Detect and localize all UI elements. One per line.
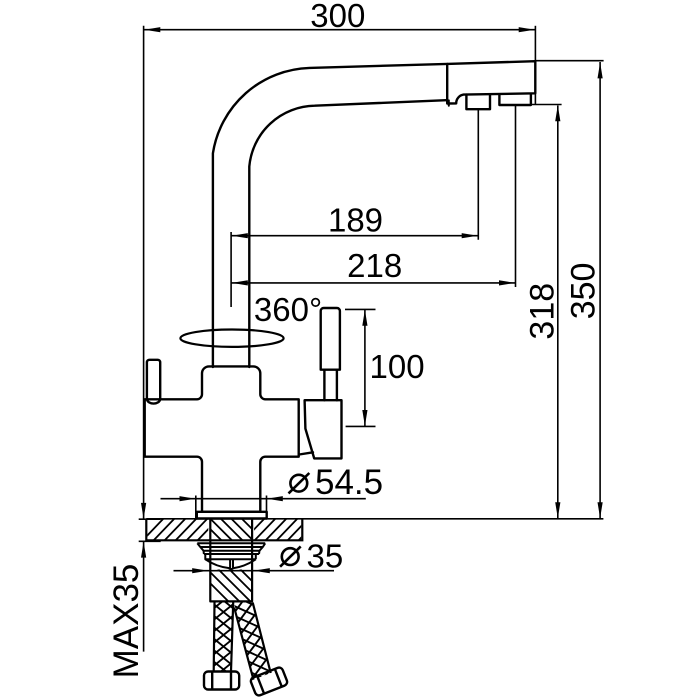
arrow 189 left: [232, 233, 248, 238]
diameter symbols drawn: [280, 473, 309, 567]
svg-text:100: 100: [370, 348, 425, 385]
hose left braid: [213, 592, 234, 678]
diameter symbol for 35: [282, 548, 299, 565]
arrow 350 top: [598, 62, 603, 78]
hose left outline: [214, 603, 234, 672]
ext line left long (300 / MAX35): [143, 26, 145, 652]
svg-text:35: 35: [307, 538, 344, 575]
arrow 318 bottom: [555, 502, 560, 518]
spray head housing: [447, 61, 535, 103]
shank hatch below nut: [196, 569, 273, 602]
side outlet gap line: [299, 452, 313, 454]
arrow dia35 right: [254, 568, 270, 573]
countertop top line (extends to dimension baseline): [146, 518, 603, 520]
arrow dia54 left: [180, 496, 196, 501]
spout pipe outer curve: [213, 64, 447, 367]
arrow 318 top: [555, 105, 560, 121]
arrow dia54 right: [267, 496, 283, 501]
arrow 100 top: [362, 310, 367, 326]
ticks MAX35: [139, 519, 161, 541]
arrow 218 left: [232, 280, 248, 285]
hose right braid: [231, 589, 276, 689]
locknut bottom notch: [228, 568, 235, 571]
svg-text:189: 189: [328, 202, 383, 239]
svg-text:360°: 360°: [254, 291, 322, 328]
body cross: [145, 366, 299, 511]
left lever: [147, 360, 160, 404]
dim line 318: [557, 106, 559, 519]
ext line 218 right: [515, 105, 517, 287]
dim line 300: [144, 29, 536, 31]
shank hatch in hole: [200, 519, 264, 541]
rotation ellipse: [180, 330, 283, 347]
ext lines dia54: [196, 496, 267, 520]
arrow 300 left: [144, 27, 160, 32]
centerline ext: [230, 232, 232, 307]
arrow 350 bottom: [598, 502, 603, 518]
dim line 218: [232, 282, 516, 284]
base plate: [197, 512, 267, 519]
right lever stem: [324, 370, 337, 401]
ticks 100: [345, 309, 376, 426]
svg-text:318: 318: [524, 283, 562, 340]
spout pipe joint stub: [448, 100, 450, 105]
svg-text:300: 300: [310, 0, 365, 34]
arrow 100 bottom: [362, 410, 367, 426]
diameter symbol for 54.5: [290, 475, 307, 492]
spout pipe inner curve: [249, 100, 446, 367]
ext line right of head top: [534, 26, 536, 61]
svg-text:MAX35: MAX35: [107, 564, 146, 679]
locknut body: [205, 554, 256, 568]
countertop hatch left: [142, 518, 230, 541]
countertop slab outline: [146, 519, 302, 541]
dim line dia54: [161, 498, 366, 500]
dim line 189: [232, 235, 479, 237]
dim line 100: [364, 309, 366, 426]
countertop slab: [142, 518, 603, 602]
locknut outline: [197, 543, 265, 554]
dim line dia35: [174, 570, 335, 572]
right lever handle: [321, 308, 340, 370]
svg-text:218: 218: [347, 247, 402, 284]
hose right outline: [234, 603, 271, 680]
dim line 350: [599, 62, 601, 519]
ext line 189 right: [477, 109, 479, 240]
arrow 218 right: [499, 280, 515, 285]
countertop hatch right: [243, 518, 320, 541]
dimension text: [107, 0, 603, 678]
ext line 318: [531, 93, 562, 104]
arrow dia35 left: [192, 568, 208, 573]
svg-text:350: 350: [565, 263, 603, 320]
arrow MAX35 down: [141, 503, 146, 519]
side outlet mount: [305, 400, 342, 458]
arrow MAX35 up: [141, 542, 146, 558]
locknut stack: [197, 543, 265, 570]
arrowheads: [141, 27, 603, 573]
shank tube edges: [210, 519, 252, 602]
ext line 350: [535, 60, 603, 62]
svg-text:54.5: 54.5: [315, 463, 383, 502]
braided hoses: [204, 589, 288, 696]
hose fitting left: [204, 672, 239, 690]
arrow 300 right: [519, 27, 535, 32]
aerator tab 1: [466, 95, 490, 110]
arrow 189 right: [462, 233, 478, 238]
hose fitting right: [250, 666, 289, 696]
aerator tab 2: [499, 95, 531, 105]
